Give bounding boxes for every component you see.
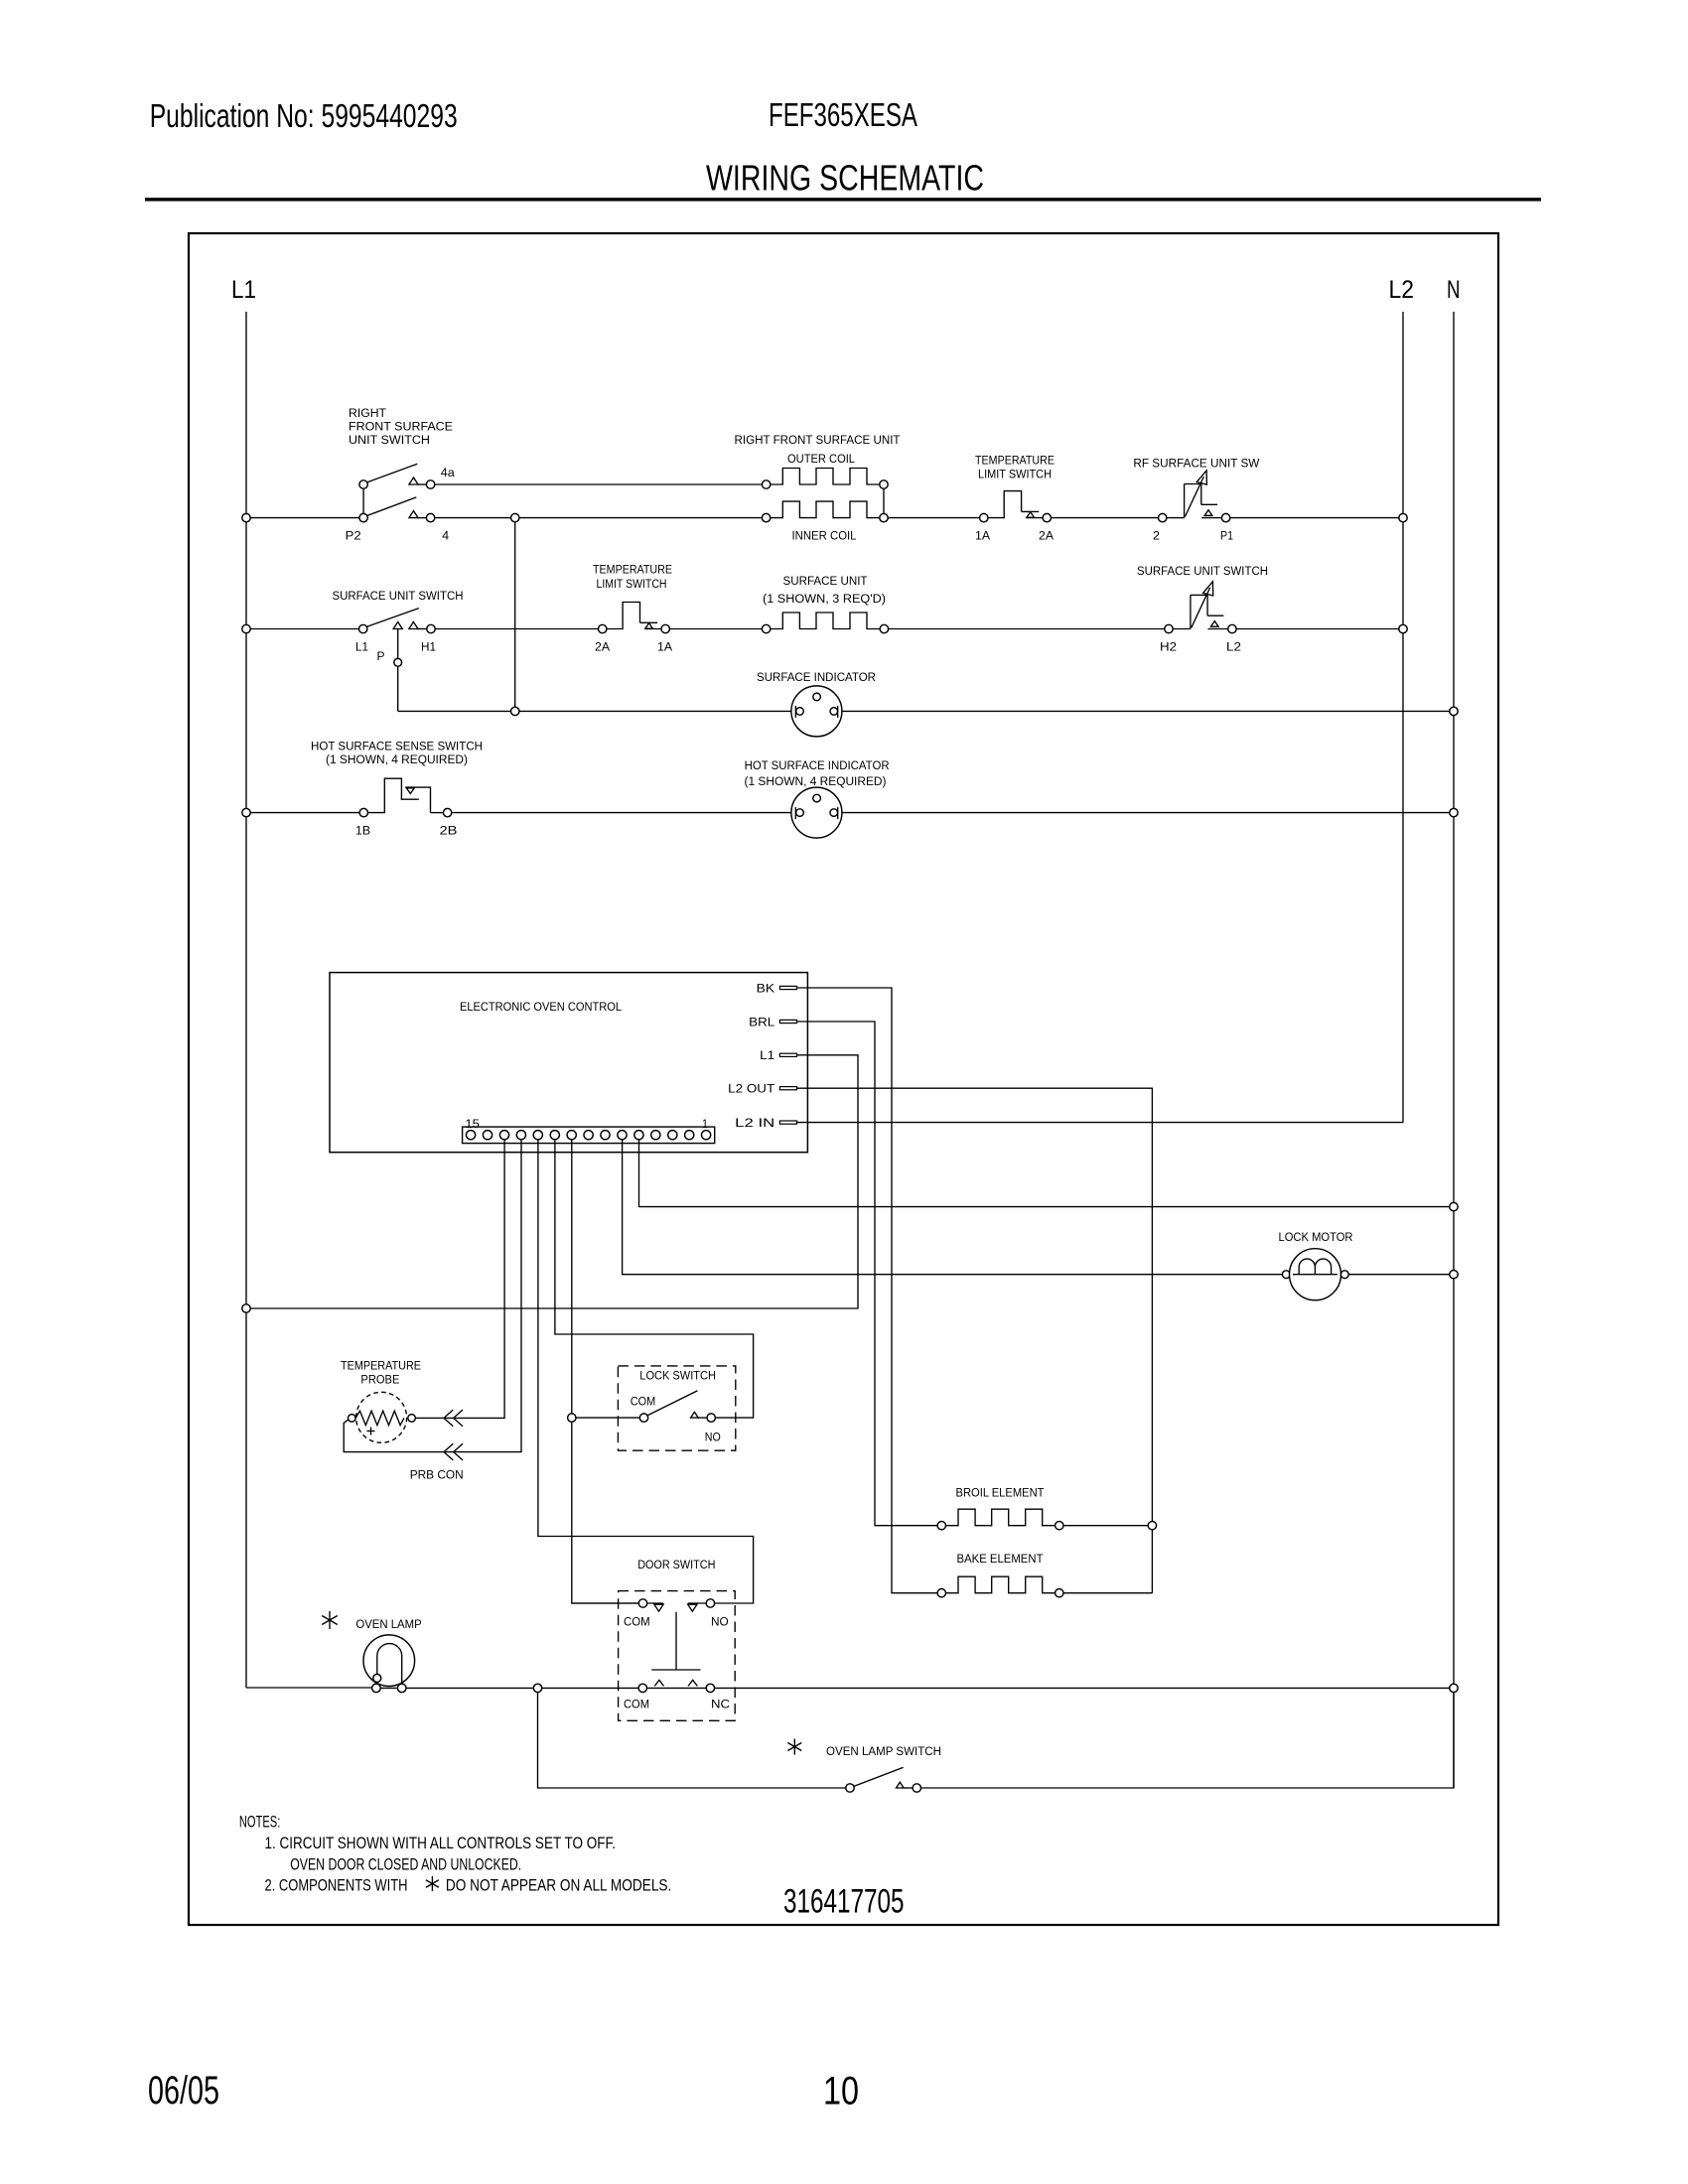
- svg-text:1. CIRCUIT SHOWN WITH ALL CON: 1. CIRCUIT SHOWN WITH ALL CONTROLS SET T…: [265, 1834, 617, 1852]
- pin 7 of terminal strip: [601, 1131, 610, 1140]
- pin 13 of terminal strip: [499, 1131, 508, 1140]
- node lamp row at N rail: [1450, 1684, 1458, 1692]
- wire L2 rail vertical: [1402, 312, 1404, 1123]
- wire H1 to temperature limit switch row2: [435, 628, 598, 630]
- switch HOT SURFACE SENSE SWITCH (1B/2B): [359, 808, 367, 816]
- wire L1 rail bottom corner to oven lamp: [246, 1687, 372, 1689]
- svg-text:L1: L1: [231, 276, 256, 304]
- wire row2 L1 to surface unit switch: [246, 628, 359, 630]
- svg-text:NC: NC: [711, 1698, 730, 1711]
- svg-text:15: 15: [465, 1117, 480, 1131]
- svg-text:NO: NO: [705, 1431, 721, 1444]
- switch DOOR SWITCH upper contacts (COM/NO): [638, 1599, 646, 1607]
- switch TEMPERATURE LIMIT SWITCH row1 (1A/2A): [980, 513, 988, 521]
- pin 5 of terminal strip: [634, 1131, 643, 1140]
- svg-text:SURFACE UNIT SWITCH: SURFACE UNIT SWITCH: [333, 589, 464, 603]
- node row1 at L2 rail: [1399, 513, 1407, 521]
- wire pin 12 to probe return: [344, 1140, 521, 1452]
- wire oven lamp switch to N rail: [921, 1693, 1454, 1788]
- svg-text:NOTES:: NOTES:: [239, 1813, 280, 1832]
- wire row1 L1 to switch P2: [246, 517, 359, 519]
- svg-text:RIGHT FRONT SURFACE UNIT: RIGHT FRONT SURFACE UNIT: [735, 433, 901, 447]
- svg-text:P1: P1: [1220, 529, 1233, 543]
- svg-text:COM: COM: [631, 1395, 656, 1409]
- svg-text:H1: H1: [421, 640, 436, 654]
- pin 4 of terminal strip: [651, 1131, 660, 1140]
- junction node under lamp row: [533, 1684, 541, 1692]
- svg-text:4: 4: [442, 529, 449, 543]
- lamp HOT SURFACE INDICATOR: [791, 787, 842, 838]
- wire pin 9 to lock switch COM and door switch COM: [572, 1140, 638, 1603]
- svg-text:WIRING SCHEMATIC: WIRING SCHEMATIC: [706, 158, 984, 199]
- svg-text:OVEN DOOR CLOSED AND UNLOCKED.: OVEN DOOR CLOSED AND UNLOCKED.: [290, 1855, 521, 1874]
- node pin5 wire at N rail: [1450, 1202, 1458, 1210]
- svg-text:N: N: [1447, 276, 1461, 304]
- svg-text:L1: L1: [760, 1048, 774, 1062]
- svg-text:OUTER COIL: OUTER COIL: [787, 452, 855, 466]
- svg-text:PROBE: PROBE: [360, 1373, 399, 1387]
- switch LOCK SWITCH contacts (COM/NO): [639, 1414, 647, 1422]
- wire between oven lamp terminals: [380, 1687, 397, 1689]
- svg-text:BROIL ELEMENT: BROIL ELEMENT: [956, 1486, 1045, 1500]
- box DOOR SWITCH dashed: [619, 1591, 736, 1721]
- box LOCK SWITCH dashed: [618, 1366, 735, 1450]
- svg-text:COM: COM: [624, 1698, 649, 1711]
- svg-text:L1: L1: [355, 640, 368, 654]
- svg-text:OVEN LAMP: OVEN LAMP: [355, 1617, 421, 1631]
- pin 12 of terminal strip: [516, 1131, 525, 1140]
- node broil at L2 OUT vertical: [1148, 1522, 1156, 1530]
- wire lock COM node to COM contact: [576, 1417, 639, 1419]
- svg-text:P2: P2: [346, 529, 361, 543]
- terminal L2 OUT of oven control: [779, 1087, 796, 1090]
- svg-text:2A: 2A: [1039, 529, 1055, 543]
- wire L1 rail vertical: [245, 312, 247, 1688]
- wire 2B to hot surface indicator: [452, 812, 791, 814]
- svg-text:10: 10: [823, 2070, 859, 2114]
- wire L2 IN terminal to L2 rail: [797, 1122, 1404, 1124]
- wire linking outer and inner coil right terminals: [883, 488, 885, 513]
- svg-text:ELECTRONIC OVEN CONTROL: ELECTRONIC OVEN CONTROL: [460, 1000, 622, 1014]
- svg-text:4a: 4a: [441, 466, 455, 479]
- switch SURFACE UNIT SWITCH right (H2/L2): [1165, 624, 1173, 632]
- svg-text:1A: 1A: [975, 529, 991, 543]
- terminal BK of oven control: [779, 986, 796, 989]
- svg-text:INNER COIL: INNER COIL: [792, 529, 857, 543]
- svg-text:1B: 1B: [355, 824, 370, 838]
- junction node row1: [511, 513, 519, 521]
- switch DOOR SWITCH lower contacts (COM/NC): [638, 1684, 646, 1692]
- svg-text:DO NOT APPEAR ON ALL MODELS.: DO NOT APPEAR ON ALL MODELS.: [446, 1876, 671, 1895]
- svg-text:2: 2: [1153, 529, 1160, 543]
- pin 11 of terminal strip: [533, 1131, 542, 1140]
- wire junction down to oven lamp switch: [538, 1693, 846, 1788]
- wire pin 10 to lock switch NO: [555, 1140, 754, 1419]
- svg-text:DOOR SWITCH: DOOR SWITCH: [637, 1558, 715, 1571]
- svg-text:OVEN LAMP SWITCH: OVEN LAMP SWITCH: [826, 1744, 941, 1758]
- svg-text:2. COMPONENTS WITH: 2. COMPONENTS WITH: [265, 1876, 408, 1895]
- wire pin 5 to N rail: [639, 1140, 1455, 1207]
- node row1 at L1 rail: [242, 513, 250, 521]
- svg-text:SURFACE UNIT: SURFACE UNIT: [783, 574, 868, 588]
- svg-text:HOT SURFACE SENSE SWITCH: HOT SURFACE SENSE SWITCH: [311, 740, 483, 753]
- wire pin 11 to door switch NO: [538, 1140, 754, 1603]
- switch OVEN LAMP SWITCH: [846, 1784, 854, 1792]
- svg-text:316417705: 316417705: [783, 1883, 905, 1921]
- svg-text:L2 IN: L2 IN: [735, 1116, 774, 1130]
- svg-text:2B: 2B: [440, 824, 458, 838]
- wire P1 to L2 rail: [1230, 517, 1403, 519]
- node indicator row at N rail: [1450, 707, 1458, 715]
- svg-text:BK: BK: [757, 981, 775, 995]
- wire pin 6 to lock motor: [623, 1140, 1283, 1275]
- wire BRL terminal to broil element: [797, 1022, 938, 1526]
- door switch plunger link: [675, 1612, 677, 1670]
- svg-text:LOCK SWITCH: LOCK SWITCH: [639, 1369, 716, 1383]
- svg-text:PRB CON: PRB CON: [410, 1468, 464, 1482]
- wire door upper COM stub: [572, 1602, 638, 1604]
- node lock motor at N rail: [1450, 1271, 1458, 1279]
- motor LOCK MOTOR: [1282, 1271, 1290, 1279]
- svg-text:NO: NO: [711, 1615, 729, 1629]
- wire door NC to N rail: [715, 1687, 1454, 1689]
- pin 8 of terminal strip: [584, 1131, 593, 1140]
- wire BK terminal to bake element: [797, 988, 938, 1593]
- svg-text:LIMIT SWITCH: LIMIT SWITCH: [597, 577, 667, 591]
- pin 9 of terminal strip: [567, 1131, 576, 1140]
- heater BAKE ELEMENT: [946, 1576, 1055, 1593]
- svg-text:2A: 2A: [595, 640, 611, 654]
- svg-text:TEMPERATURE: TEMPERATURE: [593, 563, 672, 577]
- svg-text:HOT SURFACE INDICATOR: HOT SURFACE INDICATOR: [745, 758, 890, 772]
- svg-text:RIGHT: RIGHT: [349, 406, 386, 420]
- wire 2A to RF surface unit switch: [1052, 517, 1159, 519]
- sensor TEMPERATURE PROBE: [356, 1392, 407, 1442]
- connector terminal strip P1 pins 15..1: [463, 1127, 715, 1144]
- switch RF SURFACE UNIT SW (2/P1): [1159, 513, 1167, 521]
- wire P branch vertical: [397, 629, 399, 712]
- svg-text:TEMPERATURE: TEMPERATURE: [341, 1359, 421, 1373]
- schematic border frame: [189, 233, 1498, 1925]
- wire inner coil to temperature limit switch: [888, 517, 979, 519]
- svg-text:P: P: [377, 649, 385, 663]
- svg-text:(1 SHOWN, 4 REQUIRED): (1 SHOWN, 4 REQUIRED): [745, 774, 887, 788]
- wire junction drop to indicator row: [514, 522, 516, 712]
- svg-text:LOCK MOTOR: LOCK MOTOR: [1279, 1230, 1353, 1244]
- switch RIGHT FRONT SURFACE UNIT SWITCH (P2/4/4a): [359, 480, 367, 488]
- node row3 at L1 rail: [242, 808, 250, 816]
- node row2 at L1 rail: [242, 624, 250, 632]
- asterisk for oven lamp: [329, 1611, 331, 1629]
- svg-text:COM: COM: [624, 1615, 650, 1629]
- svg-text:BRL: BRL: [749, 1015, 774, 1028]
- pin 2 of terminal strip: [685, 1131, 694, 1140]
- node EOC L1 wire at L1 rail: [242, 1304, 250, 1312]
- switch TEMPERATURE LIMIT SWITCH row2 (2A/1A): [599, 624, 607, 632]
- heater SURFACE UNIT coil: [771, 613, 880, 629]
- svg-text:L2: L2: [1389, 276, 1415, 304]
- pin 1 of terminal strip: [702, 1131, 711, 1140]
- wire door lower COM to NC bridge: [647, 1687, 707, 1689]
- title underline rule: [145, 198, 1541, 201]
- svg-text:1A: 1A: [657, 640, 673, 654]
- wire indicator row3 to N rail: [842, 812, 1454, 814]
- wire indicator row horizontal: [398, 710, 791, 712]
- wire pin 13 to temperature probe: [415, 1140, 504, 1419]
- heater INNER COIL: [771, 501, 880, 517]
- wire oven lamp to door switch COM: [406, 1687, 638, 1689]
- svg-text:TEMPERATURE: TEMPERATURE: [975, 454, 1055, 468]
- terminal BRL of oven control: [779, 1020, 796, 1023]
- wire coil to surface unit switch right: [889, 628, 1165, 630]
- svg-text:BAKE ELEMENT: BAKE ELEMENT: [957, 1552, 1044, 1566]
- svg-text:SURFACE INDICATOR: SURFACE INDICATOR: [757, 670, 876, 684]
- terminal L1 of oven control: [779, 1053, 796, 1056]
- wire row1 upper contact to outer coil: [435, 483, 763, 485]
- svg-text:H2: H2: [1160, 640, 1177, 654]
- asterisk in note 2: [431, 1876, 433, 1891]
- svg-text:UNIT SWITCH: UNIT SWITCH: [349, 433, 430, 447]
- svg-text:L2: L2: [1226, 640, 1241, 654]
- heater BROIL ELEMENT: [946, 1509, 1055, 1526]
- node row2 at L2 rail: [1399, 624, 1407, 632]
- svg-text:RF SURFACE UNIT SW: RF SURFACE UNIT SW: [1133, 457, 1259, 471]
- connector PRB CON lower chevron: [444, 1443, 453, 1460]
- svg-text:(1 SHOWN, 3 REQ'D): (1 SHOWN, 3 REQ'D): [763, 592, 886, 606]
- svg-text:FRONT SURFACE: FRONT SURFACE: [349, 420, 453, 434]
- wire lock motor to N rail: [1348, 1274, 1454, 1276]
- junction node indicator row: [511, 707, 519, 715]
- wire bake element to L2 OUT vertical: [1063, 1592, 1152, 1594]
- pin 10 of terminal strip: [550, 1131, 559, 1140]
- wire L2 contact to L2 rail: [1236, 628, 1403, 630]
- lamp OVEN LAMP: [363, 1635, 415, 1687]
- wire broil element to L2 OUT wire: [1063, 1525, 1152, 1527]
- lamp SURFACE INDICATOR: [791, 686, 842, 737]
- svg-text:06/05: 06/05: [148, 2069, 219, 2113]
- asterisk for oven lamp switch: [793, 1739, 795, 1755]
- wire row3 L1 to hot surface sense switch: [246, 812, 359, 814]
- svg-text:Publication No: 5995440293: Publication No: 5995440293: [150, 97, 458, 134]
- svg-text:1: 1: [702, 1117, 708, 1131]
- pin 14 of terminal strip: [483, 1131, 492, 1140]
- wire N rail vertical: [1453, 312, 1455, 1788]
- wire to surface unit coil: [670, 628, 763, 630]
- terminal P on branch: [394, 658, 402, 666]
- wire indicator to N rail: [842, 710, 1454, 712]
- pin 6 of terminal strip: [618, 1131, 627, 1140]
- svg-text:(1 SHOWN, 4 REQUIRED): (1 SHOWN, 4 REQUIRED): [326, 752, 468, 766]
- node row3 at N rail: [1450, 808, 1458, 816]
- terminal L2 IN of oven control: [779, 1121, 796, 1124]
- wire L1 terminal to L1 rail: [250, 1055, 858, 1308]
- box ELECTRONIC OVEN CONTROL U1: [330, 973, 807, 1153]
- connector PRB CON upper chevron: [444, 1410, 453, 1427]
- wire L2 OUT terminal to elements: [797, 1088, 1153, 1593]
- svg-text:SURFACE UNIT SWITCH: SURFACE UNIT SWITCH: [1137, 564, 1268, 578]
- node lock switch COM junction: [568, 1414, 576, 1422]
- pin 3 of terminal strip: [668, 1131, 677, 1140]
- svg-text:L2 OUT: L2 OUT: [728, 1082, 774, 1096]
- heater RIGHT FRONT SURFACE UNIT OUTER COIL: [771, 469, 880, 485]
- svg-text:FEF365XESA: FEF365XESA: [769, 96, 917, 133]
- wire row1 lower contact to junction: [435, 517, 763, 519]
- pin 15 of terminal strip: [467, 1131, 476, 1140]
- svg-text:LIMIT SWITCH: LIMIT SWITCH: [978, 468, 1052, 481]
- switch SURFACE UNIT SWITCH left (L1/P/H1): [359, 624, 367, 632]
